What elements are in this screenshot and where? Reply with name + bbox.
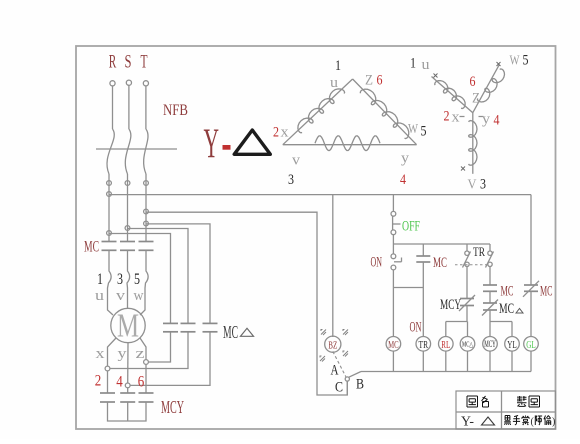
wire S to delta contact 2: [128, 229, 189, 324]
star arm bottom: [472, 113, 474, 174]
svg-text:2: 2: [444, 109, 450, 125]
svg-text:v: v: [116, 288, 126, 304]
title block: [456, 391, 556, 429]
svg-text:BZ: BZ: [328, 340, 337, 352]
svg-text:MC: MC: [540, 284, 553, 300]
node R delta tap: [107, 231, 112, 236]
title Y-delta: [461, 415, 495, 430]
svg-text:u: u: [422, 57, 431, 73]
svg-text:RL: RL: [441, 339, 450, 351]
wire x down: [107, 371, 109, 393]
star plus upper-left: [434, 74, 438, 78]
wire motor to z: [140, 338, 146, 359]
svg-text:1: 1: [335, 58, 341, 74]
contactor MCY pole 2: [120, 393, 135, 402]
coil TR: [416, 337, 431, 352]
svg-text:M: M: [117, 308, 139, 345]
wire x to delta contact 2: [110, 332, 188, 369]
wire z down: [145, 364, 147, 393]
wire T below NFB: [145, 174, 147, 242]
contactor MC pole 1: [102, 242, 117, 251]
svg-text:x: x: [281, 125, 290, 141]
svg-text:OFF: OFF: [402, 219, 420, 235]
svg-text:MC: MC: [388, 339, 399, 351]
title triangle: [234, 130, 270, 154]
star winding: [432, 62, 505, 174]
delta coil right: [360, 89, 408, 139]
NFB pole S: [125, 129, 131, 174]
svg-text:R: R: [109, 52, 117, 73]
wire motor to y: [127, 343, 129, 383]
wire T to delta contact 3: [146, 224, 210, 324]
wires to RL and MCdelta coils: [446, 306, 468, 337]
motor M: [111, 308, 145, 345]
delta winding: [283, 79, 417, 151]
svg-text:3: 3: [288, 172, 294, 188]
title author: [504, 416, 555, 428]
delta side right: [353, 79, 417, 145]
NFB trip bar: [96, 148, 177, 150]
svg-text:T: T: [141, 52, 148, 73]
svg-text:Z: Z: [472, 91, 480, 107]
svg-text:MC: MC: [499, 301, 514, 317]
selector bus L3: [146, 212, 347, 395]
svg-text:1: 1: [410, 56, 416, 72]
title text drawn-by: [517, 396, 540, 407]
svg-text:W: W: [408, 122, 419, 137]
svg-text:4: 4: [494, 113, 500, 129]
svg-text:3: 3: [480, 177, 486, 193]
wire TR left down: [466, 267, 468, 299]
svg-text:B: B: [356, 377, 364, 393]
node S delta tap: [125, 226, 130, 231]
star arm upper-left: [432, 77, 473, 113]
star coil upper-right: [477, 69, 504, 102]
wires to MCY and YL coils: [490, 310, 512, 337]
node T delta tap: [144, 221, 149, 226]
svg-text:v: v: [292, 153, 301, 169]
wire v hook: [127, 250, 130, 308]
svg-text:2: 2: [273, 125, 279, 141]
right branch wire: [530, 195, 532, 285]
svg-text:W: W: [510, 54, 521, 69]
wire u hook: [108, 250, 114, 315]
wire y down: [127, 388, 129, 393]
node T selector tap: [144, 209, 149, 214]
coil bottom wires: [393, 351, 531, 371]
bottom bus: [361, 371, 531, 373]
svg-text:MC: MC: [84, 239, 99, 256]
svg-text:5: 5: [421, 124, 427, 140]
wire to TR coil: [422, 288, 424, 337]
wire ON-MC join: [393, 287, 423, 289]
node z pin6: [144, 360, 149, 365]
node x pin2: [105, 366, 110, 371]
delta side bottom: [283, 144, 417, 146]
svg-text:y: y: [482, 112, 491, 128]
wire R below NFB: [108, 174, 110, 242]
wire to MC coil: [392, 288, 394, 337]
MC-delta label: [223, 322, 254, 342]
svg-text:y: y: [118, 346, 128, 362]
lamp GL: [524, 337, 539, 352]
wire z to delta contact 1: [149, 332, 171, 362]
title dash: [223, 145, 231, 150]
star point bus: [108, 402, 147, 421]
selector switch: [333, 351, 361, 395]
svg-text:MC: MC: [223, 322, 238, 342]
coil MCY: [483, 337, 498, 352]
svg-text:Z: Z: [365, 73, 373, 89]
svg-text:MCY: MCY: [440, 297, 461, 313]
star coil upper-left: [435, 81, 465, 109]
svg-text:y: y: [401, 151, 410, 167]
svg-text:ON: ON: [410, 320, 422, 336]
wire S below NFB: [127, 174, 129, 242]
svg-text:(: (: [531, 417, 535, 428]
contact MCY NC: [459, 295, 475, 311]
NFB pole T: [144, 129, 148, 174]
buzzer BZ: [320, 195, 348, 362]
node y pin4: [125, 383, 130, 388]
wire OFF to node: [392, 235, 394, 244]
wire w hook: [140, 250, 148, 315]
svg-text:YL: YL: [507, 339, 517, 351]
svg-text:TR: TR: [473, 244, 485, 259]
holding contact MC: [416, 244, 430, 288]
svg-text:z: z: [136, 346, 145, 362]
terminal S: [126, 80, 131, 129]
wire y to delta contact 3: [130, 332, 210, 386]
svg-text:TR: TR: [419, 339, 429, 351]
svg-text:A: A: [331, 363, 339, 379]
svg-text:4: 4: [116, 374, 123, 391]
svg-text:MC△: MC△: [462, 341, 473, 349]
wire TR right down: [489, 267, 491, 286]
svg-text:u: u: [95, 288, 105, 304]
svg-text:6: 6: [470, 74, 476, 90]
svg-text:4: 4: [400, 172, 406, 188]
node bus after OFF: [393, 243, 490, 245]
svg-text:6: 6: [377, 73, 383, 89]
control drop to OFF: [392, 195, 394, 212]
control bus L1: [109, 194, 531, 196]
coil MC: [386, 337, 401, 352]
svg-text:MCY: MCY: [484, 339, 496, 349]
contact MCdelta NC: [482, 300, 498, 316]
svg-text:x: x: [452, 110, 461, 126]
contact MC NO: [483, 285, 497, 291]
contactor MC-delta pole 2: [181, 323, 196, 331]
delta coil left: [298, 89, 345, 133]
svg-text:S: S: [125, 52, 132, 73]
delta coil bottom: [315, 136, 380, 151]
svg-text:u: u: [330, 75, 339, 91]
svg-text:): ): [552, 417, 555, 428]
svg-text:GL: GL: [526, 339, 536, 351]
pushbutton OFF: [391, 211, 401, 234]
delta side left: [283, 79, 353, 145]
svg-text:5: 5: [523, 53, 529, 69]
star plus upper-right: [497, 62, 501, 66]
lamp YL: [505, 337, 520, 352]
contactor MC pole 2: [120, 242, 135, 251]
wire motor to x: [108, 338, 117, 366]
contactor MC-delta pole 1: [163, 323, 178, 331]
timer contact TR: [455, 244, 494, 268]
contactor MCY pole 3: [139, 393, 154, 402]
svg-text:Y: Y: [204, 122, 220, 168]
title text drawing-name: [467, 396, 489, 407]
wire to GL: [530, 291, 532, 336]
svg-text:Y-: Y-: [461, 415, 474, 430]
svg-text:MC: MC: [501, 284, 514, 300]
junction R: [107, 181, 112, 186]
svg-text:V: V: [468, 178, 477, 193]
terminal T: [143, 81, 148, 129]
svg-text:x: x: [96, 346, 106, 362]
contactor MCY pole 1: [100, 393, 115, 402]
coil MCdelta: [460, 337, 475, 352]
junction T: [144, 181, 149, 186]
MCdelta NC label: [499, 301, 523, 317]
svg-text:NFB: NFB: [163, 102, 188, 119]
svg-text:6: 6: [138, 374, 145, 391]
star center dashes: [460, 116, 484, 118]
contact MC NC right: [523, 281, 539, 297]
junction S: [125, 181, 130, 186]
star plus bottom: [461, 167, 465, 171]
svg-text:1: 1: [97, 271, 103, 288]
svg-text:ON: ON: [371, 255, 383, 271]
border frame: [76, 46, 556, 429]
lamp RL: [439, 337, 454, 352]
contactor MC pole 3: [139, 242, 154, 251]
NFB pole R: [107, 129, 114, 174]
star arm upper-right: [473, 65, 499, 113]
pushbutton ON: [391, 244, 402, 288]
terminal R: [110, 81, 115, 129]
svg-text:MCY: MCY: [161, 397, 184, 417]
wire between contacts: [489, 291, 491, 303]
svg-text:2: 2: [95, 373, 102, 390]
wire R to delta contact 1: [109, 234, 171, 324]
svg-text:C: C: [335, 380, 343, 396]
node R control tap: [107, 192, 112, 197]
contactor MC-delta pole 3: [203, 323, 218, 331]
svg-text:3: 3: [117, 271, 123, 288]
svg-text:5: 5: [134, 271, 140, 288]
star coil bottom: [469, 121, 477, 166]
svg-text:w: w: [134, 288, 144, 304]
svg-text:MC: MC: [433, 255, 447, 271]
